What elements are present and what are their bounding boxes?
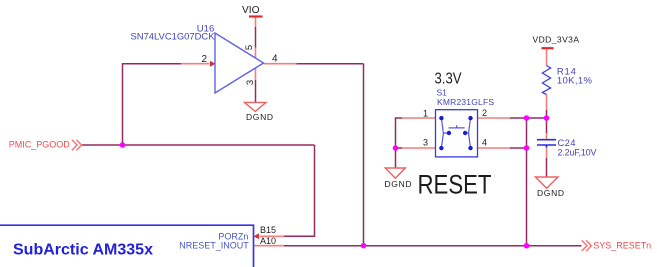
svg-text:10K,1%: 10K,1%	[557, 75, 593, 86]
svg-text:DGND: DGND	[537, 188, 564, 198]
svg-text:2: 2	[482, 108, 487, 118]
svg-text:DGND: DGND	[385, 179, 412, 189]
svg-text:VDD_3V3A: VDD_3V3A	[533, 35, 580, 45]
svg-text:5: 5	[244, 45, 255, 50]
svg-text:4: 4	[482, 138, 487, 148]
svg-text:2: 2	[202, 54, 208, 65]
svg-text:DGND: DGND	[246, 112, 273, 122]
svg-text:SubArctic AM335x: SubArctic AM335x	[13, 241, 153, 258]
svg-text:SN74LVC1G07DCK: SN74LVC1G07DCK	[131, 32, 216, 43]
svg-text:2.2uF,10V: 2.2uF,10V	[558, 148, 597, 158]
svg-text:NRESET_INOUT: NRESET_INOUT	[179, 240, 249, 250]
svg-text:SYS_RESETn: SYS_RESETn	[593, 241, 651, 252]
svg-text:3: 3	[245, 80, 256, 85]
svg-text:3.3V: 3.3V	[435, 71, 462, 88]
svg-text:1: 1	[423, 109, 428, 119]
svg-text:A10: A10	[260, 236, 276, 246]
svg-text:3: 3	[423, 138, 428, 148]
svg-text:PMIC_PGOOD: PMIC_PGOOD	[9, 139, 71, 149]
svg-text:KMR231GLFS: KMR231GLFS	[437, 97, 494, 107]
svg-text:VIO: VIO	[242, 4, 260, 16]
svg-text:S1: S1	[437, 88, 448, 98]
svg-text:RESET: RESET	[418, 170, 492, 200]
svg-text:B15: B15	[260, 225, 276, 235]
svg-text:4: 4	[272, 53, 278, 64]
